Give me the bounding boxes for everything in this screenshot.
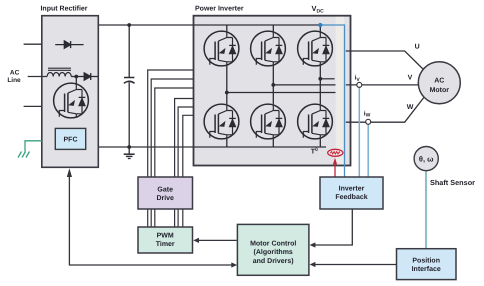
svg-text:Input Rectifier: Input Rectifier — [40, 5, 87, 13]
svg-text:Inverter: Inverter — [339, 186, 365, 193]
node rail capacitor bottom junction — [127, 145, 131, 149]
transistor Q4 — [204, 104, 239, 139]
svg-text:Power Inverter: Power Inverter — [195, 6, 244, 13]
wire inverter column 2 leads — [272, 25, 274, 147]
gate drive box — [138, 177, 193, 209]
svg-text:U: U — [415, 44, 420, 51]
svg-text:Motor Control: Motor Control — [250, 240, 296, 248]
wire AC line phase 3 — [24, 105, 42, 107]
svg-text:(Algorithms: (Algorithms — [254, 248, 293, 256]
wire boost switch drain lead — [75, 77, 77, 85]
wire position interface to motor control arrow — [310, 262, 397, 267]
svg-text:W: W — [407, 104, 414, 111]
svg-text:Position: Position — [412, 257, 440, 265]
wire iV sense blue line — [358, 87, 360, 177]
wire phase V to motor — [346, 84, 421, 86]
node rail capacitor top junction — [127, 23, 131, 27]
svg-text:AC: AC — [434, 77, 444, 84]
node boost switch junction — [74, 75, 78, 79]
wire DC bus positive rail — [98, 24, 320, 26]
wire phase U to motor — [346, 51, 425, 71]
shaft sensor circle — [414, 147, 438, 171]
transistor Q5 — [251, 104, 286, 139]
wire phase U midpoint line — [320, 78, 334, 80]
wire gate line 5 — [178, 107, 193, 177]
wire inverter column 3 leads — [319, 25, 321, 147]
diode D2 boost diode — [84, 73, 98, 80]
wire phase V midpoint line — [273, 84, 335, 86]
wire motor control to PFC arrow — [67, 168, 237, 267]
earth ground green chassis — [18, 141, 42, 158]
wire inductor to diode D2 — [71, 76, 84, 78]
svg-text:Drive: Drive — [156, 194, 174, 202]
svg-text:Interface: Interface — [412, 265, 441, 273]
AC motor — [418, 62, 460, 104]
wire motor control to pwm timer arrow — [193, 238, 237, 243]
power inverter box — [194, 16, 351, 166]
wire VDC sense blue line — [320, 25, 344, 177]
svg-text:Line: Line — [7, 77, 21, 84]
wire gate line 2 — [151, 79, 193, 177]
inductor L1 boost inductor with core — [47, 68, 71, 76]
svg-text:iW: iW — [364, 110, 371, 118]
current sensor iW — [366, 119, 371, 124]
ground DC link — [124, 147, 135, 159]
wire gate line 3 — [155, 88, 194, 177]
current sensor iV — [357, 82, 362, 87]
svg-text:PWM: PWM — [157, 233, 174, 240]
input rectifier box — [42, 16, 99, 168]
position interface box — [397, 249, 457, 280]
svg-text:Shaft Sensor: Shaft Sensor — [430, 178, 475, 187]
transistor Q1 — [204, 31, 239, 66]
wire DC bus negative rail — [98, 146, 326, 148]
shaft sensor coupling teal line — [425, 171, 427, 249]
wire thermistor red arrow — [333, 158, 337, 177]
wire phase W midpoint line — [227, 92, 336, 94]
svg-text:V: V — [408, 75, 413, 82]
wire phase W to motor — [346, 96, 425, 122]
node phase U midpoint — [318, 77, 322, 81]
wire gate drive to pwm lines — [148, 209, 183, 227]
node VDC tap blue dot — [318, 23, 322, 27]
PFC controller box — [55, 128, 85, 149]
svg-text:PFC: PFC — [64, 137, 78, 144]
wire gate line 1 — [148, 70, 194, 177]
motor control box — [237, 224, 309, 275]
wire inverter column 1 leads — [226, 25, 228, 147]
wire AC line phase 2 — [28, 76, 47, 78]
thermistor sensor T — [328, 149, 343, 156]
light strip inside inverter right edge — [336, 17, 344, 165]
svg-text:Motor: Motor — [430, 87, 450, 94]
svg-text:AC: AC — [10, 70, 20, 77]
transistor Q3 — [298, 31, 333, 66]
diode D1 top rectifier diode — [55, 41, 83, 48]
wire gate line 6 — [183, 115, 194, 177]
node phase W midpoint — [225, 91, 229, 95]
svg-text:and Drivers): and Drivers) — [253, 257, 294, 265]
svg-text:θ, ω: θ, ω — [419, 154, 434, 163]
pwm timer box — [138, 227, 193, 253]
transistor Q2 — [251, 31, 286, 66]
svg-text:Gate: Gate — [157, 186, 173, 193]
transistor Q6 — [298, 104, 333, 139]
wire AC line phase 1 — [24, 43, 42, 45]
inverter feedback box — [320, 177, 383, 209]
svg-text:Timer: Timer — [156, 240, 175, 248]
capacitor C1 DC link — [124, 25, 135, 147]
wire gate line 4 — [175, 99, 194, 178]
wire iW sense blue line — [367, 124, 369, 177]
svg-text:Feedback: Feedback — [335, 193, 367, 201]
wire inverter feedback to motor control arrow — [310, 209, 353, 248]
transistor Q7 PFC boost IGBT — [54, 83, 89, 118]
node phase V midpoint — [271, 83, 275, 87]
